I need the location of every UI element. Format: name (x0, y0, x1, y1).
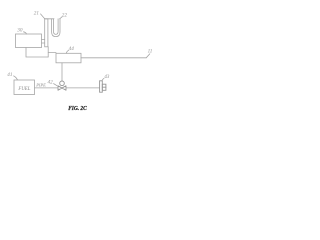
svg-text:21: 21 (34, 11, 40, 17)
stub upper box30-to-bar (42, 39, 45, 41)
label 44 (66, 45, 74, 53)
label 22 (60, 13, 68, 19)
comp 43 tall body (100, 81, 103, 92)
label 41 (7, 71, 17, 80)
supply line (81, 57, 146, 59)
tube 22 outer wall (52, 19, 60, 37)
label 30 (17, 28, 26, 34)
svg-text:11: 11 (148, 49, 153, 55)
svg-text:43: 43 (104, 73, 110, 80)
pipe tank to valve (35, 87, 59, 89)
stub lower box30-to-bar (42, 42, 45, 44)
svg-text:42: 42 (48, 78, 54, 85)
box 30 (16, 34, 42, 48)
svg-text:FIG. 2C: FIG. 2C (68, 105, 87, 112)
wire box30 down and right (26, 48, 48, 58)
svg-text:22: 22 (62, 13, 68, 19)
comp 43 outlet midline (102, 86, 106, 88)
valve 42 actuator circle (60, 81, 65, 86)
svg-text:41: 41 (7, 71, 13, 78)
svg-text:44: 44 (69, 45, 75, 52)
pump outlet down (61, 63, 63, 81)
label 42 (48, 78, 58, 85)
label 43 (102, 73, 110, 81)
fuel tank 41 box (14, 80, 35, 95)
valve 42 body (58, 86, 66, 90)
label 21 (34, 11, 45, 19)
pipe valve to comp43 (66, 87, 100, 89)
svg-text:FUEL: FUEL (17, 87, 30, 92)
pump 44 box (56, 53, 81, 63)
wire branch to pump (48, 51, 56, 53)
wire bar down (47, 47, 49, 57)
sensor bar body (45, 19, 48, 47)
supply line end tick (146, 54, 150, 58)
svg-text:PIPE: PIPE (35, 83, 46, 88)
comp 43 outlet box (102, 84, 106, 90)
top mounting line (45, 18, 55, 20)
svg-text:30: 30 (17, 28, 23, 34)
tube 22 inner wall (54, 19, 59, 35)
